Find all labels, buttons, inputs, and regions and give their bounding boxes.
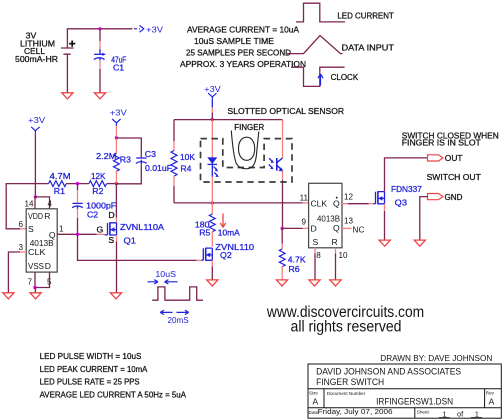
wire +3V down to pins 14 4: [34, 134, 36, 197]
resistor R3: [115, 138, 117, 154]
wire C1 top: [99, 29, 101, 41]
junction on Q wire: [76, 233, 79, 236]
wire pin1 Q to Q1 gate: [57, 233, 96, 235]
svg-text:A: A: [313, 396, 319, 406]
svg-text:1: 1: [59, 225, 64, 234]
pin 3 stub: [20, 251, 26, 253]
svg-text:VDD: VDD: [28, 211, 43, 221]
wire battery negative down: [66, 54, 68, 93]
pin 11 stub: [303, 202, 309, 204]
ground under Q3: [379, 240, 390, 246]
svg-text:+3V: +3V: [146, 24, 163, 34]
svg-text:14: 14: [24, 200, 34, 209]
ground under battery: [62, 93, 73, 99]
wire +3V to R3 top: [115, 126, 117, 138]
fingernail outline: [239, 137, 255, 160]
svg-text:C3: C3: [145, 149, 156, 159]
slotted sensor dashed outline: [201, 139, 293, 182]
svg-text:12K: 12K: [91, 171, 106, 181]
svg-text:Document Number: Document Number: [327, 391, 366, 396]
svg-text:12: 12: [344, 192, 354, 201]
junction sensor top rail: [211, 118, 214, 121]
arrows 10uS: [148, 280, 159, 284]
power arrow +3V at battery: [134, 28, 140, 30]
wire R2 to R3 node: [107, 183, 117, 185]
svg-text:4: 4: [48, 200, 53, 209]
ground under VSS: [30, 293, 41, 299]
capacitor C2: [77, 184, 79, 190]
svg-text:R2: R2: [92, 186, 103, 196]
svg-text:APPROX. 3 YEARS OPERATION: APPROX. 3 YEARS OPERATION: [180, 59, 306, 69]
clock edge arrow: [318, 74, 323, 86]
svg-text:D: D: [108, 210, 114, 220]
wire pin 8 to ground: [314, 254, 316, 281]
svg-text:Sheet: Sheet: [417, 410, 430, 415]
wire +3V to sensor rail: [211, 100, 213, 107]
ground under Q2: [207, 280, 218, 286]
svg-text:CLK: CLK: [28, 247, 46, 257]
pin 6 stub: [20, 228, 26, 230]
capacitor C3 loop: [116, 138, 141, 157]
ground under GND port: [414, 240, 425, 246]
svg-text:R3: R3: [120, 155, 131, 165]
svg-text:LED PULSE WIDTH = 10uS: LED PULSE WIDTH = 10uS: [40, 351, 142, 361]
svg-text:+3V: +3V: [204, 84, 221, 94]
svg-text:FINGER SWITCH: FINGER SWITCH: [316, 377, 384, 387]
wire Q3 source to ground: [384, 204, 386, 211]
svg-text:R5: R5: [199, 228, 210, 238]
ground under C1: [94, 93, 105, 99]
svg-text:CLK: CLK: [311, 198, 328, 208]
svg-text:R6: R6: [288, 264, 299, 274]
svg-text:NC: NC: [353, 225, 365, 234]
battery B1 3V lithium cell: [61, 48, 74, 54]
svg-text:Q2: Q2: [220, 250, 232, 260]
pin 12 stub: [342, 203, 348, 205]
svg-text:R4: R4: [180, 164, 191, 174]
battery plus sign: [69, 41, 75, 47]
svg-text:11: 11: [300, 194, 309, 203]
svg-text:10: 10: [339, 251, 349, 260]
svg-text:9: 9: [301, 218, 306, 227]
svg-text:7: 7: [27, 278, 32, 287]
pin 8 stub: [314, 248, 316, 254]
pin 9 stub: [303, 227, 309, 229]
ground under pin 10: [330, 280, 341, 286]
Q3 gate stub: [369, 203, 374, 205]
junction R1-R2 C2: [76, 182, 79, 185]
ground under Q1: [110, 293, 121, 299]
svg-text:+3V: +3V: [28, 115, 45, 125]
svg-text:8: 8: [316, 251, 321, 260]
svg-text:IRFINGERSW1.DSN: IRFINGERSW1.DSN: [376, 396, 453, 406]
svg-text:10uS: 10uS: [155, 269, 176, 279]
port OUT: [428, 155, 444, 161]
wire pin6 loop to R1: [6, 184, 48, 229]
wire Q node to Q2 gate: [78, 234, 197, 260]
wire R1 to R2: [66, 183, 89, 185]
svg-text:OUT: OUT: [445, 153, 463, 163]
svg-text:R: R: [331, 237, 337, 247]
svg-text:10mA: 10mA: [218, 228, 240, 238]
pin 10 stub: [335, 248, 337, 254]
LED D1: [207, 157, 217, 164]
svg-text:Q3: Q3: [395, 197, 408, 207]
resistor R2: [89, 181, 107, 187]
wire bridge pins 14-4: [35, 197, 50, 209]
svg-text:1: 1: [442, 409, 446, 418]
LED light arrows: [214, 167, 217, 170]
svg-text:ZVNL110A: ZVNL110A: [120, 222, 164, 232]
svg-text:Friday, July 07, 2006: Friday, July 07, 2006: [318, 407, 393, 416]
svg-text:+3V: +3V: [110, 108, 127, 118]
wire Q2 source to ground: [211, 260, 213, 266]
pin 13 NC stub: [342, 227, 352, 229]
wire bridge pins 7-5: [35, 272, 50, 287]
svg-text:D: D: [45, 261, 51, 271]
junction at pin 14: [34, 195, 37, 198]
wire R3 node to Q1 drain: [115, 184, 117, 218]
wire pin7 to ground: [34, 288, 36, 294]
svg-text:1: 1: [475, 409, 479, 418]
wire pin 12 to Q3 gate: [348, 203, 369, 205]
svg-text:SWITCH OUT: SWITCH OUT: [427, 172, 482, 182]
svg-text:10uS SAMPLE TIME: 10uS SAMPLE TIME: [194, 36, 274, 46]
wire C1 bottom: [99, 60, 101, 69]
svg-text:DATA INPUT: DATA INPUT: [342, 43, 395, 53]
phototransistor Q: [277, 158, 283, 171]
junction R3 bottom: [115, 182, 118, 185]
waveform clock: [291, 67, 345, 86]
IC U1 4013B box: [26, 209, 57, 272]
svg-text:Size: Size: [309, 390, 318, 395]
svg-text:LED PEAK CURRENT = 10mA: LED PEAK CURRENT = 10mA: [40, 364, 148, 374]
waveform LED pulses: [152, 287, 203, 300]
svg-text:Q: Q: [333, 198, 340, 208]
svg-text:LED PULSE RATE = 25 PPS: LED PULSE RATE = 25 PPS: [40, 377, 140, 387]
svg-text:DRAWN BY: DAVE JOHNSON: DRAWN BY: DAVE JOHNSON: [380, 353, 492, 363]
svg-text:AVERAGE LED CURRENT A 50Hz = 5: AVERAGE LED CURRENT A 50Hz = 5uA: [40, 390, 187, 400]
waveform LED current: [296, 3, 345, 22]
wire battery positive to top rail: [67, 29, 132, 48]
svg-text:S: S: [313, 237, 319, 247]
svg-text:FDN337: FDN337: [391, 184, 422, 194]
svg-text:25 SAMPLES PER SECOND: 25 SAMPLES PER SECOND: [186, 48, 291, 58]
photo light arrows: [269, 158, 272, 161]
transistor Q1 ZVNL110A: [105, 222, 117, 235]
LED cathode wire: [211, 164, 213, 176]
svg-text:GND: GND: [445, 192, 463, 202]
wire Q1 source to ground: [116, 235, 118, 242]
wire D node to pin 9: [282, 227, 302, 229]
svg-text:500mA-HR: 500mA-HR: [15, 54, 58, 64]
resistor R1: [49, 181, 67, 187]
title block frame: [308, 364, 501, 418]
svg-text:CLOCK: CLOCK: [331, 72, 359, 82]
junction at C1 top: [98, 27, 101, 30]
phototransistor collector pin: [282, 120, 284, 158]
wire CLK rail to pin 11: [174, 202, 303, 204]
junction LED cathode CLK rail: [211, 201, 214, 204]
ground under pin 8: [309, 280, 320, 286]
svg-text:R1: R1: [54, 186, 65, 196]
svg-text:R: R: [44, 211, 50, 221]
finger outline: [231, 131, 258, 169]
current arrow 10mA: [220, 214, 225, 228]
svg-text:13: 13: [344, 217, 354, 226]
svg-text:all rights reserved: all rights reserved: [291, 319, 402, 336]
svg-text:DAVID JOHNSON AND ASSOCIATES: DAVID JOHNSON AND ASSOCIATES: [316, 366, 461, 376]
svg-text:Rev: Rev: [486, 390, 495, 395]
junction pin7: [33, 286, 36, 289]
wire pin 10 to ground: [335, 254, 337, 281]
svg-text:2.2M: 2.2M: [96, 151, 117, 161]
IC U2 4013B box: [309, 183, 342, 248]
capacitor C1: [94, 54, 105, 60]
svg-text:AVERAGE CURRENT = 10uA: AVERAGE CURRENT = 10uA: [187, 25, 299, 35]
svg-text:3: 3: [18, 243, 23, 252]
svg-text:D: D: [311, 223, 317, 233]
wire sensor top rail: [174, 119, 283, 121]
wire photo emitter down to D node: [282, 171, 284, 181]
port GND: [428, 194, 444, 200]
svg-text:S: S: [28, 224, 34, 234]
svg-text:C1: C1: [113, 62, 124, 72]
wire GND port to ground: [420, 197, 428, 241]
svg-text:VSS: VSS: [28, 261, 44, 271]
svg-text:FINGER: FINGER: [234, 122, 264, 132]
svg-text:6: 6: [18, 220, 23, 229]
svg-text:FINGER IS IN SLOT: FINGER IS IN SLOT: [402, 137, 482, 147]
resistor R4: [173, 120, 175, 141]
arrows 20mS: [160, 310, 172, 314]
Q1 gate pin stub: [97, 233, 105, 235]
waveform data input: [287, 36, 343, 54]
LED anode pin: [211, 120, 213, 158]
svg-text:4.7M: 4.7M: [50, 171, 71, 181]
transistor Q2 ZVNL110: [201, 248, 212, 261]
svg-text:Q: Q: [333, 223, 340, 233]
svg-text:of: of: [457, 409, 464, 418]
svg-text:10K: 10K: [180, 152, 195, 162]
Q2 gate stub: [197, 259, 202, 261]
svg-text:4013B: 4013B: [317, 213, 340, 223]
resistor R6: [281, 228, 283, 243]
junction D node: [281, 227, 284, 230]
svg-text:A: A: [489, 396, 495, 406]
transistor Q3 FDN337: [374, 191, 385, 204]
ground at pin3: [3, 293, 14, 299]
wire pin3 CLK to ground: [8, 252, 20, 293]
svg-text:20mS: 20mS: [168, 315, 189, 325]
svg-text:Q1: Q1: [124, 236, 137, 246]
junction R3 top: [115, 136, 118, 139]
wire Q3 drain to OUT port: [385, 158, 428, 192]
svg-text:0.01uF: 0.01uF: [145, 163, 172, 173]
svg-text:G: G: [97, 224, 104, 234]
resistor R5: [211, 203, 213, 214]
svg-text:SLOTTED OPTICAL SENSOR: SLOTTED OPTICAL SENSOR: [228, 106, 345, 116]
ground under R6: [276, 280, 287, 286]
svg-text:C2: C2: [87, 210, 98, 220]
svg-text:LED CURRENT: LED CURRENT: [337, 11, 394, 21]
svg-text:S: S: [108, 235, 114, 245]
